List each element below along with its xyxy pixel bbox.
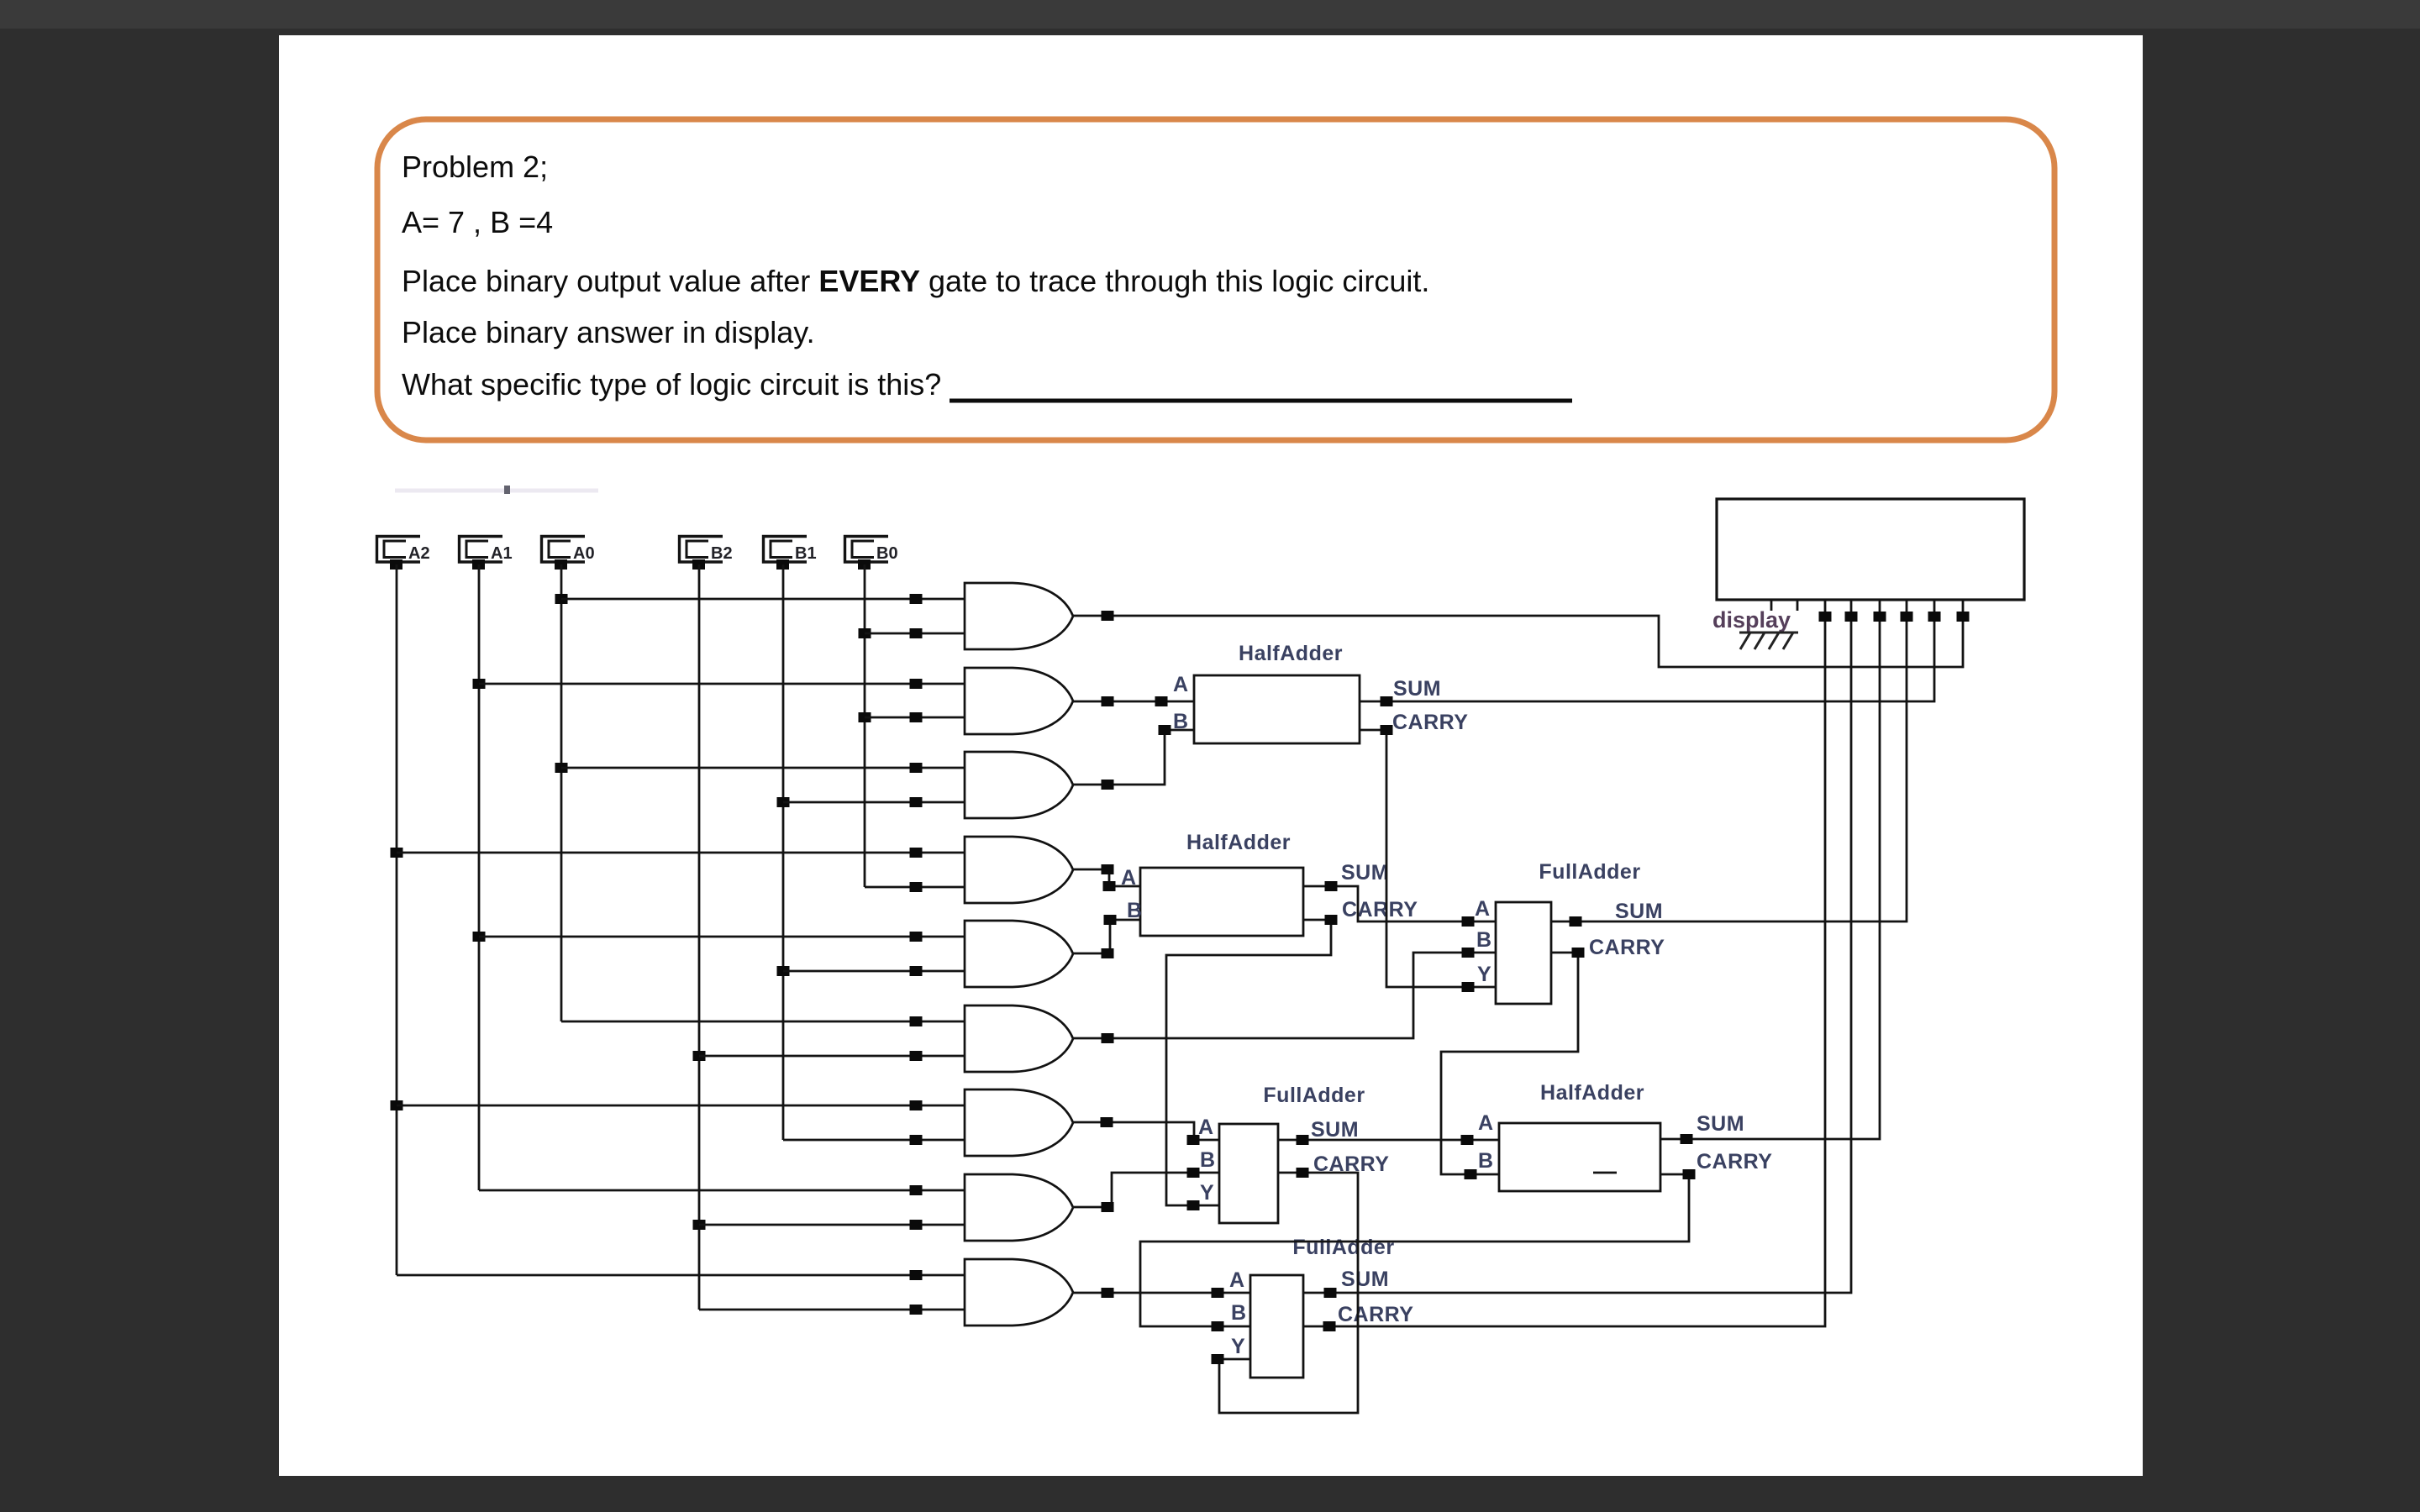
svg-text:A: A [1478,1111,1494,1135]
svg-text:B1: B1 [795,544,817,563]
display pin 8 [1962,600,1965,617]
page [279,35,2143,1476]
input pin B1 [764,537,808,563]
display pin 7 [1933,600,1936,617]
input pin A2 [377,537,421,563]
svg-text:SUM: SUM [1697,1112,1744,1136]
AND gate G6 A0B2 [965,1005,1073,1072]
wire gate input 8.1 [479,1189,965,1192]
svg-text:Problem 2;: Problem 2; [402,150,548,184]
wire gate input 2.2 [865,717,965,719]
wire net G4 out to U2 A [1073,869,1140,886]
wire A0 rail [560,564,563,1021]
wire net G3 out to U1 B [1073,730,1194,785]
display pin 5 [1879,600,1881,617]
wire net P1 U1 SUM to display pin7 [1360,617,1934,701]
half adder U1 (HalfAdder) [1194,675,1360,743]
svg-text:CARRY: CARRY [1589,936,1665,959]
wire net G9 out to U6 A [1073,1292,1250,1294]
svg-text:A1: A1 [491,544,513,563]
wire gate input 2.1 [479,683,965,685]
answer blank line [950,399,1572,403]
display component [1717,499,2024,600]
wire net U2 CARRY to U4 Y [1166,920,1331,1205]
display pin 3 [1824,600,1827,617]
svg-text:display: display [1712,607,1791,633]
wire net U1 CARRY to U3 Y [1360,730,1496,987]
wire gate input 6.1 [561,1021,965,1023]
wire gate input 7.2 [783,1139,965,1142]
AND gate G9 A2B2 [965,1259,1073,1326]
display pin 1 [1770,600,1773,611]
svg-text:SUM: SUM [1311,1118,1359,1142]
svg-text:FullAdder: FullAdder [1539,860,1640,884]
AND gate G5 A1B1 [965,921,1073,987]
half adder U2 (HalfAdder) [1140,868,1303,936]
svg-text:A= 7 , B =4: A= 7 , B =4 [402,205,553,239]
wire B2 rail [698,564,701,1310]
wire gate input 1.1 [561,598,965,601]
display pin 6 [1906,600,1908,617]
svg-text:Place binary output value afte: Place binary output value after EVERY ga… [402,264,1429,298]
display pin 4 [1850,600,1853,617]
display pin 2 [1797,600,1799,611]
smudge artifact [395,489,598,493]
wire A2 rail [396,564,398,1275]
wire gate input 9.1 [397,1274,965,1277]
wire net P4 U6 SUM to display pin4 [1303,617,1851,1293]
full adder U4 (FullAdder) [1219,1124,1278,1223]
dash inside U5 [1593,1172,1617,1174]
svg-text:HalfAdder: HalfAdder [1186,831,1291,854]
display hatch 7777 [1739,632,1798,634]
svg-text:Y: Y [1477,963,1491,986]
wire gate input 7.1 [397,1105,965,1107]
wire gate input 6.2 [699,1055,965,1058]
svg-text:FullAdder: FullAdder [1263,1084,1365,1107]
full adder U3 (FullAdder) [1496,902,1551,1004]
svg-text:HalfAdder: HalfAdder [1239,642,1343,665]
svg-text:Place binary answer in display: Place binary answer in display. [402,315,815,349]
svg-text:SUM: SUM [1341,1268,1389,1291]
svg-text:HalfAdder: HalfAdder [1540,1081,1644,1105]
svg-text:CARRY: CARRY [1697,1150,1772,1173]
svg-text:A: A [1229,1268,1245,1292]
svg-text:B2: B2 [711,544,733,563]
svg-text:Y: Y [1200,1181,1214,1205]
wire net P5 U6 CARRY to display pin3 [1303,617,1825,1326]
svg-text:FullAdder: FullAdder [1292,1236,1394,1259]
AND gate G4 A2B0 [965,837,1073,903]
full adder U6 (FullAdder) [1250,1275,1303,1378]
wire gate input 4.1 [397,852,965,854]
svg-text:A0: A0 [573,544,595,563]
wire net U2 SUM to U3 A [1303,886,1496,921]
wire B1 rail [782,564,785,1140]
svg-text:B0: B0 [876,544,898,563]
wire gate input 8.2 [699,1224,965,1226]
wire net G5 out to U2 B [1073,920,1140,953]
svg-text:A: A [1198,1116,1214,1139]
AND gate G2 A1B0 [965,668,1073,734]
svg-text:Y: Y [1231,1335,1245,1358]
wire gate input 4.2 [865,886,965,889]
svg-text:B: B [1231,1301,1247,1325]
wire net U4 SUM to U5 A [1278,1139,1499,1142]
wire net P3 U5 SUM to display pin5 [1660,617,1880,1139]
wire net G8 out to U4 B [1073,1173,1219,1207]
wire gate input 5.1 [479,936,965,938]
wire gate input 3.2 [783,801,965,804]
wire net G2 out to U1 A [1073,701,1194,703]
wire net U5 CARRY to U6 B [1140,1174,1689,1326]
wire net G7 out to U4 A [1073,1122,1219,1140]
svg-text:A2: A2 [408,544,430,563]
svg-text:A: A [1173,673,1189,696]
wire gate input 1.2 [865,633,965,635]
half adder U5 (HalfAdder) [1499,1123,1660,1191]
svg-text:A: A [1475,897,1491,921]
AND gate G7 A2B1 [965,1089,1073,1156]
AND gate G8 A1B2 [965,1174,1073,1241]
wire net G6 out to U3 B [1073,953,1496,1038]
AND gate G3 A0B1 [965,752,1073,818]
AND gate G1 A0B0 [965,583,1073,649]
wire gate input 9.2 [699,1309,965,1311]
wire gate input 3.1 [561,767,965,769]
svg-text:SUM: SUM [1393,677,1441,701]
svg-text:CARRY: CARRY [1392,711,1468,734]
svg-text:SUM: SUM [1615,900,1663,923]
svg-text:B: B [1478,1149,1494,1173]
svg-text:SUM: SUM [1341,861,1389,885]
wire B0 rail [864,564,866,887]
wire gate input 5.2 [783,970,965,973]
instruction box [377,119,2054,440]
wire net P0 gate G1 to display pin8 [1073,616,1963,667]
svg-text:What specific type of logic ci: What specific type of logic circuit is t… [402,367,941,402]
input pin B2 [680,537,723,563]
wire net U3 CARRY to U5 B [1441,953,1578,1174]
svg-text:CARRY: CARRY [1342,898,1418,921]
svg-text:B: B [1476,928,1492,952]
input pin A0 [542,537,586,563]
svg-text:CARRY: CARRY [1338,1303,1413,1326]
wire A1 rail [478,564,481,1190]
input pin A1 [460,537,503,563]
input pin B0 [845,537,889,563]
wire net P2 U3 SUM to display pin6 [1551,617,1907,921]
wire net U4 CARRY to U6 Y [1219,1173,1358,1413]
svg-text:B: B [1200,1148,1216,1172]
